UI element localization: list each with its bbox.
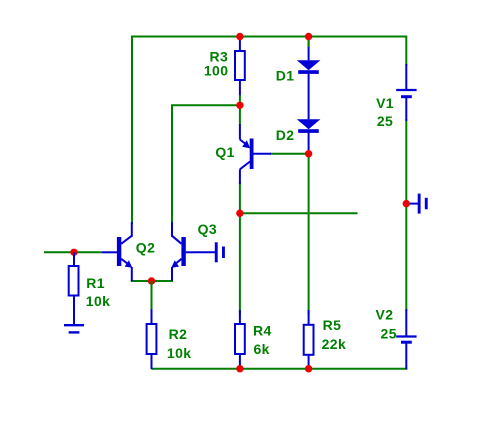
svg-text:Q3: Q3 bbox=[198, 221, 217, 237]
jumper at Q3 base bbox=[194, 242, 225, 262]
jumper on right rail bbox=[406, 194, 427, 214]
node dot input/R1 bbox=[70, 249, 77, 256]
wire Q1 emitter from R3 node bbox=[239, 105, 241, 125]
wire right rail top (to V1) bbox=[405, 36, 407, 67]
transistor Q1 (PNP) bbox=[240, 124, 271, 184]
wire Q1 base to D2 node bbox=[270, 153, 309, 155]
wire D2 bottom lead bbox=[308, 133, 310, 150]
svg-text:D2: D2 bbox=[276, 127, 295, 143]
transistor Q3 (NPN mirrored) bbox=[172, 222, 194, 281]
node dot top D1 bbox=[305, 33, 312, 40]
node dot emitter join bbox=[148, 277, 155, 284]
svg-text:V1: V1 bbox=[376, 95, 394, 111]
svg-text:R4: R4 bbox=[253, 322, 272, 338]
diode D2 bbox=[297, 119, 321, 129]
resistor R4 bbox=[239, 310, 241, 324]
node dot R3 bottom bbox=[236, 102, 243, 109]
battery V1 bbox=[405, 64, 407, 90]
svg-text:V2: V2 bbox=[375, 307, 393, 323]
wire emitters join bbox=[131, 280, 173, 282]
diode D1 bbox=[297, 60, 321, 70]
resistor R2 bbox=[151, 281, 153, 310]
wire V1 to jumper node to V2 bbox=[405, 119, 407, 311]
svg-text:R1: R1 bbox=[86, 275, 105, 291]
svg-text:25: 25 bbox=[381, 325, 397, 341]
wire input left bbox=[44, 251, 102, 253]
svg-text:Q1: Q1 bbox=[215, 144, 234, 160]
node dot bottom R4 bbox=[236, 365, 243, 372]
svg-text:100: 100 bbox=[204, 62, 229, 78]
node dot Q1 collector bbox=[236, 210, 243, 217]
svg-text:D1: D1 bbox=[276, 68, 295, 84]
resistor R1 bbox=[73, 252, 75, 266]
wire R3 top lead bbox=[239, 37, 241, 52]
node dot top R3 bbox=[236, 33, 243, 40]
svg-text:22k: 22k bbox=[322, 336, 347, 352]
transistor Q2 (NPN) bbox=[102, 222, 132, 281]
wire D2 node down to R5 bbox=[308, 154, 310, 315]
resistor R3 bbox=[235, 51, 245, 80]
svg-text:Q2: Q2 bbox=[136, 240, 155, 256]
wire D1-D2 lead bbox=[308, 74, 310, 119]
ground bbox=[64, 324, 84, 326]
node dot bottom R5 bbox=[305, 365, 312, 372]
svg-text:6k: 6k bbox=[254, 341, 270, 357]
wire Q1 collector node down to R4 bbox=[239, 182, 241, 315]
wire R3 bottom lead bbox=[239, 80, 241, 96]
battery V2 bbox=[405, 309, 407, 337]
node dot D2 base node bbox=[305, 150, 312, 157]
svg-text:10k: 10k bbox=[86, 293, 111, 309]
wire bottom rail bbox=[151, 368, 407, 370]
node dot right rail jumper bbox=[403, 200, 410, 207]
svg-text:R5: R5 bbox=[323, 317, 342, 333]
svg-text:10k: 10k bbox=[167, 345, 192, 361]
wire R3-bottom node to Q3 collector riser bbox=[172, 105, 240, 226]
svg-text:R2: R2 bbox=[169, 326, 188, 342]
wire top rail to D1 bbox=[308, 37, 310, 48]
svg-text:25: 25 bbox=[377, 113, 393, 129]
wire Q1 collector node horizontal stub bbox=[240, 212, 358, 214]
wire left rail (to Q2 collector) bbox=[131, 36, 133, 225]
wire D1 anode lead bbox=[308, 37, 310, 61]
wire R3 bottom lead to node A bbox=[239, 95, 241, 105]
resistor R5 bbox=[308, 310, 310, 325]
wire top rail bbox=[131, 36, 406, 38]
